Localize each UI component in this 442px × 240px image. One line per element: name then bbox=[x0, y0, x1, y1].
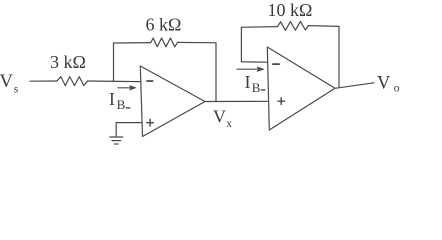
wire to op-amp U2 inverting input bbox=[241, 61, 267, 63]
svg-text:I: I bbox=[109, 89, 115, 109]
wire top of feedback loop 2 left segment bbox=[241, 26, 277, 29]
wire ground to op-amp U1 plus input bbox=[116, 123, 142, 137]
wire top of feedback loop 2 right segment bbox=[308, 25, 339, 28]
resistor R3 10k zigzag bbox=[278, 21, 309, 30]
wire U2 output to Vo bbox=[335, 83, 374, 89]
svg-text:6 kΩ: 6 kΩ bbox=[146, 15, 182, 35]
wire top of feedback loop 1 right segment bbox=[178, 41, 216, 43]
svg-text:V: V bbox=[0, 72, 14, 92]
wire feedback tap up from input node bbox=[113, 43, 115, 81]
svg-text:10 kΩ: 10 kΩ bbox=[268, 0, 313, 20]
bias current arrow IB2 bbox=[237, 68, 259, 70]
bias current arrow IB1 bbox=[118, 87, 132, 89]
svg-text:3 kΩ: 3 kΩ bbox=[50, 52, 86, 72]
svg-text:o: o bbox=[394, 83, 400, 95]
wire top of feedback loop 1 left segment bbox=[114, 42, 151, 44]
op-amp U1 plus pin mark bbox=[147, 119, 154, 126]
wire R1 to op-amp U1 inverting input bbox=[88, 80, 140, 83]
ground symbol bbox=[110, 136, 123, 138]
svg-text:s: s bbox=[14, 84, 19, 96]
svg-text:V: V bbox=[213, 106, 226, 126]
op-amp U2 plus pin mark bbox=[278, 98, 285, 105]
resistor R1 3k zigzag bbox=[57, 77, 88, 86]
op-amp U1 minus pin mark bbox=[147, 80, 153, 82]
wire feedback loop 2 down to output node bbox=[338, 26, 340, 87]
op-amp U1 triangle bbox=[140, 66, 205, 137]
wire node Vx from U1 output to U2 plus input bbox=[205, 100, 267, 102]
wire feedback loop 1 down to output node bbox=[215, 43, 217, 102]
svg-text:B: B bbox=[117, 97, 126, 112]
op-amp U2 triangle bbox=[267, 47, 335, 130]
svg-text:B: B bbox=[252, 80, 261, 95]
node Vs input wire bbox=[30, 80, 57, 82]
op-amp U2 minus pin mark bbox=[273, 63, 279, 65]
resistor R2 6k zigzag bbox=[151, 38, 178, 47]
svg-text:x: x bbox=[226, 118, 232, 130]
svg-text:V: V bbox=[377, 73, 391, 93]
svg-text:I: I bbox=[245, 72, 251, 92]
wire feedback tap 2 down bbox=[240, 27, 242, 62]
